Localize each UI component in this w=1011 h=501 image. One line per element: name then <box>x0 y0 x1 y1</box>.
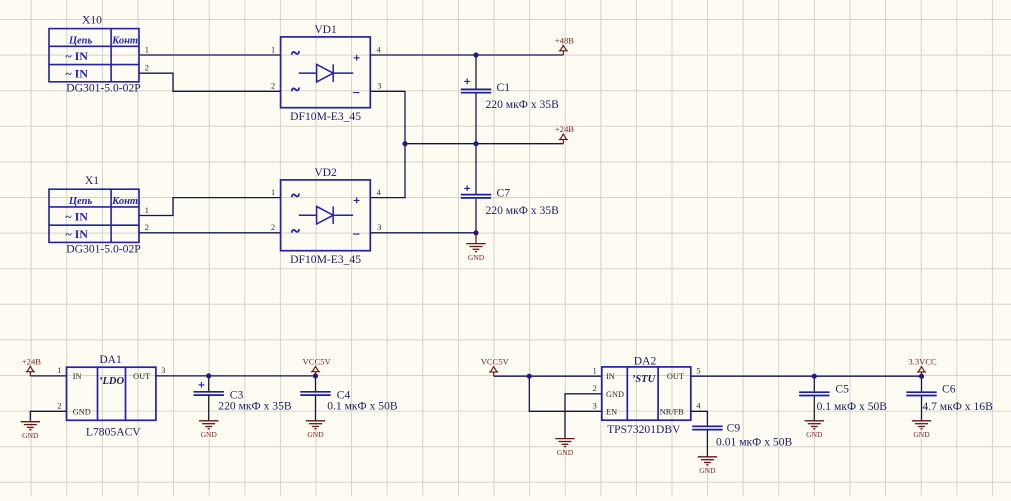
svg-text:0.1 мкФ x 50В: 0.1 мкФ x 50В <box>327 399 398 412</box>
svg-text:0.1 мкФ x 50В: 0.1 мкФ x 50В <box>817 400 888 413</box>
svg-text:OUT: OUT <box>667 372 684 381</box>
svg-text:DA1: DA1 <box>99 353 122 366</box>
svg-text:NR/FB: NR/FB <box>660 407 684 416</box>
svg-text:1: 1 <box>145 45 149 54</box>
svg-text:GND: GND <box>699 466 716 475</box>
power port +24В (DA1 input) <box>26 366 35 376</box>
svg-text:1: 1 <box>271 45 275 54</box>
wire DA1.2 to GND <box>30 411 66 421</box>
power symbol GND at DA1 pin2 <box>21 422 40 430</box>
svg-text:’STU: ’STU <box>632 374 657 385</box>
svg-text:Цепь: Цепь <box>68 196 93 207</box>
svg-text:OUT: OUT <box>133 372 150 381</box>
svg-text:2: 2 <box>145 64 149 73</box>
svg-text:C7: C7 <box>497 186 511 199</box>
svg-text:X1: X1 <box>85 174 99 187</box>
svg-text:+: + <box>353 193 360 207</box>
svg-text:~ IN: ~ IN <box>65 66 88 80</box>
power port +48В (top right) <box>559 45 568 55</box>
wire X1.1 to VD2.1 <box>139 198 281 216</box>
wire VCC5V to DA2.1 <box>494 375 602 377</box>
svg-text:4.7 мкФ x 16В: 4.7 мкФ x 16В <box>922 400 993 413</box>
power symbol GND at C3 <box>199 421 218 429</box>
wire X1.2 to VD2.2 <box>139 232 281 234</box>
svg-text:~: ~ <box>291 221 300 240</box>
svg-text:GND: GND <box>307 430 324 439</box>
svg-text:VD2: VD2 <box>314 166 337 179</box>
svg-text:DG301-5.0-02P: DG301-5.0-02P <box>66 242 140 255</box>
svg-text:X10: X10 <box>82 14 102 27</box>
svg-text:~ IN: ~ IN <box>65 49 88 63</box>
junction dots top <box>473 52 478 57</box>
capacitor C5 <box>813 376 815 391</box>
voltage regulator DA1 (L7805ACV) <box>67 367 156 420</box>
svg-text:+24В: +24В <box>555 124 574 134</box>
svg-text:GND: GND <box>606 390 624 399</box>
svg-text:GND: GND <box>557 448 574 457</box>
svg-text:+48В: +48В <box>555 36 574 46</box>
power port 3.3VCC (DA2 output) <box>917 367 926 377</box>
wire DA2.5 OUT to 3.3VCC <box>691 375 922 377</box>
power symbol GND at C5 <box>805 421 824 429</box>
svg-text:+: + <box>464 74 471 88</box>
svg-text:VD1: VD1 <box>314 23 337 36</box>
diode inside VD2 <box>299 206 353 224</box>
svg-text:1: 1 <box>57 366 61 375</box>
svg-text:~: ~ <box>291 186 300 205</box>
svg-text:GND: GND <box>22 431 39 440</box>
power symbol GND at C6 <box>912 421 931 429</box>
capacitor C7 <box>475 144 477 194</box>
svg-text:DF10M-E3_45: DF10M-E3_45 <box>290 110 361 123</box>
diode inside VD1 <box>299 64 353 82</box>
capacitor C6 <box>921 376 923 391</box>
wire X10.1 to VD1.1 <box>139 54 281 56</box>
svg-text:+24В: +24В <box>22 356 41 366</box>
wire DA1.3 OUT to VCC5V <box>156 375 316 377</box>
svg-text:~: ~ <box>291 44 300 63</box>
svg-text:3: 3 <box>593 402 597 411</box>
svg-text:DG301-5.0-02P: DG301-5.0-02P <box>66 82 140 95</box>
svg-text:C9: C9 <box>727 421 741 434</box>
wire DA2.2 to GND <box>565 394 602 438</box>
wire DA2.4 to C9 <box>691 411 708 425</box>
connector X10 (DG301-5.0-02P) <box>49 29 139 82</box>
svg-text:L7805ACV: L7805ACV <box>86 425 141 438</box>
bridge rectifier VD1 (DF10M-E3_45) <box>281 37 371 108</box>
power symbol GND at C7 bottom <box>466 244 485 252</box>
svg-text:Конт.: Конт. <box>111 35 141 46</box>
svg-text:C5: C5 <box>835 383 849 396</box>
connector X1 (DG301-5.0-02P) <box>49 189 139 242</box>
svg-text:1: 1 <box>271 188 275 197</box>
svg-text:220 мкФ x 35В: 220 мкФ x 35В <box>486 98 560 111</box>
bridge rectifier VD2 (DF10M-E3_45) <box>281 180 371 251</box>
svg-text:2: 2 <box>271 82 275 91</box>
svg-text:3: 3 <box>377 82 381 91</box>
svg-text:VCC5V: VCC5V <box>303 356 332 366</box>
power port VCC5V (DA1 output) <box>311 366 320 376</box>
svg-text:IN: IN <box>606 372 615 381</box>
svg-text:’LDO: ’LDO <box>99 376 124 387</box>
svg-text:2: 2 <box>145 223 149 232</box>
wire +24V rail <box>405 143 563 145</box>
svg-text:220 мкФ x 35В: 220 мкФ x 35В <box>218 399 292 412</box>
svg-text:5: 5 <box>696 367 700 376</box>
wire X10.2 to VD1.2 <box>139 73 281 91</box>
power port VCC5V (DA2 input) <box>489 367 498 377</box>
svg-text:2: 2 <box>593 384 597 393</box>
power symbol GND at DA2 pin2 <box>555 439 574 447</box>
capacitor C4 <box>315 376 317 391</box>
svg-text:~: ~ <box>291 80 300 99</box>
svg-text:–: – <box>352 85 360 99</box>
svg-text:EN: EN <box>606 407 617 416</box>
svg-text:DA2: DA2 <box>634 354 657 367</box>
voltage regulator DA2 (TPS73201DBV) <box>602 367 691 420</box>
svg-text:C1: C1 <box>497 81 511 94</box>
svg-text:2: 2 <box>271 223 275 232</box>
svg-text:–: – <box>352 226 360 240</box>
power symbol GND at C4 <box>306 421 325 429</box>
wire VD1.3 to VD2.4 <box>370 91 405 197</box>
power symbol GND at C9 <box>698 457 717 465</box>
svg-text:2: 2 <box>57 402 61 411</box>
svg-text:+: + <box>464 181 471 195</box>
wire VD2.3 to GND node <box>370 232 476 234</box>
capacitor C9 <box>692 426 722 429</box>
svg-text:GND: GND <box>806 430 823 439</box>
svg-text:VCC5V: VCC5V <box>481 357 510 367</box>
capacitor C1 <box>475 55 477 89</box>
capacitor C3 <box>208 376 210 391</box>
svg-text:3.3VCC: 3.3VCC <box>908 357 937 367</box>
svg-text:+: + <box>353 50 360 64</box>
svg-text:IN: IN <box>73 372 82 381</box>
svg-text:~ IN: ~ IN <box>65 210 88 224</box>
svg-text:1: 1 <box>593 367 597 376</box>
svg-text:GND: GND <box>201 430 218 439</box>
svg-text:0.01 мкФ x 50В: 0.01 мкФ x 50В <box>716 435 793 448</box>
svg-text:3: 3 <box>377 223 381 232</box>
svg-text:3: 3 <box>161 366 165 375</box>
svg-text:~ IN: ~ IN <box>65 227 88 241</box>
wire +24V to DA1.1 <box>30 375 66 377</box>
svg-text:GND: GND <box>73 407 91 416</box>
svg-text:C6: C6 <box>942 383 956 396</box>
svg-text:Конт.: Конт. <box>111 196 141 207</box>
power port +24В (mid right) <box>559 134 568 144</box>
svg-text:GND: GND <box>913 430 930 439</box>
svg-text:GND: GND <box>468 253 485 262</box>
svg-text:220 мкФ x 35В: 220 мкФ x 35В <box>486 204 560 217</box>
svg-text:Цепь: Цепь <box>68 35 93 46</box>
wire to DA2.3 EN <box>529 376 602 411</box>
svg-text:TPS73201DBV: TPS73201DBV <box>607 423 681 436</box>
wire VD1.4 to +48V net <box>370 54 563 56</box>
svg-text:1: 1 <box>145 206 149 215</box>
svg-text:DF10M-E3_45: DF10M-E3_45 <box>290 253 361 266</box>
svg-text:+: + <box>198 377 205 391</box>
